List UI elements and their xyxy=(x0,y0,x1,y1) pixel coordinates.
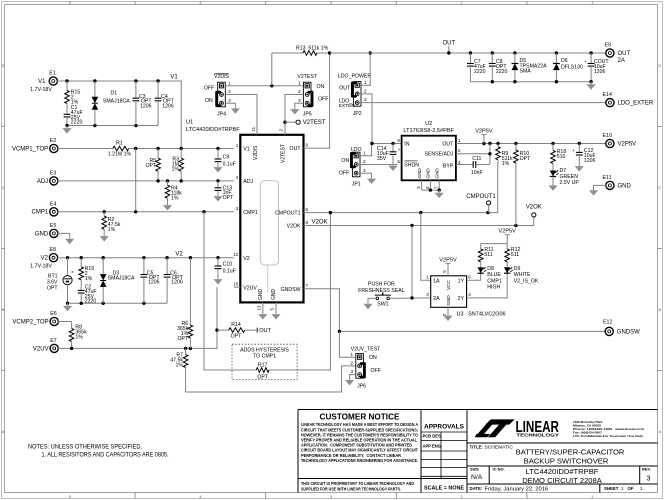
svg-text:E14: E14 xyxy=(603,92,612,98)
node V2TEST xyxy=(285,121,296,123)
svg-text:V2OK: V2OK xyxy=(312,219,328,225)
svg-text:1%: 1% xyxy=(502,161,510,167)
svg-text:1%: 1% xyxy=(108,227,116,233)
svg-text:2220: 2220 xyxy=(71,120,83,126)
svg-text:JP5: JP5 xyxy=(303,112,312,118)
svg-text:OUT: OUT xyxy=(290,146,302,152)
turret E4 xyxy=(50,208,58,216)
JP1 pin2 wire to SHDN xyxy=(360,164,398,166)
U2 OUT wire to E10 xyxy=(456,143,606,145)
svg-text:13: 13 xyxy=(257,305,262,311)
LED D9 WHITE xyxy=(504,267,510,273)
wire E2 node down to CMP1 xyxy=(135,149,137,212)
svg-text:OF: OF xyxy=(628,486,634,491)
svg-text:1206: 1206 xyxy=(148,280,160,286)
op-amp U1 LTC4420 box xyxy=(240,135,303,303)
title rows xyxy=(467,443,658,493)
svg-text:CMPOUT1: CMPOUT1 xyxy=(466,194,496,200)
U1 pin 10 wire xyxy=(234,286,241,288)
svg-text:2A: 2A xyxy=(433,296,440,302)
svg-text:0.1uF: 0.1uF xyxy=(223,268,236,274)
svg-text:OPT: OPT xyxy=(223,195,234,201)
svg-text:1.21M 1%: 1.21M 1% xyxy=(108,152,132,158)
svg-text:ON: ON xyxy=(341,158,349,164)
power flag V2P5V at U2 xyxy=(483,135,485,144)
svg-text:E7: E7 xyxy=(50,338,57,344)
resistor R12 xyxy=(506,244,508,249)
svg-text:APPROVALS: APPROVALS xyxy=(424,423,464,430)
svg-text:NOTES: UNLESS OTHERWISE SPECIF: NOTES: UNLESS OTHERWISE SPECIFIED, xyxy=(28,444,142,451)
svg-text:REV.: REV. xyxy=(642,467,651,472)
diode D1 SMAJ18CA xyxy=(94,81,96,97)
svg-text:V2: V2 xyxy=(243,256,249,262)
svg-text:2.5V UP: 2.5V UP xyxy=(560,180,580,186)
svg-text:OPT: OPT xyxy=(47,285,58,291)
svg-text:N/A: N/A xyxy=(471,474,483,481)
JP5 pin2 wire to V2TEST node xyxy=(285,95,303,135)
ground below COUT xyxy=(590,82,592,85)
resistor R9 xyxy=(497,144,499,147)
capacitor C14 xyxy=(392,144,394,152)
wire V1 rail xyxy=(57,81,181,149)
capacitor C9 xyxy=(217,149,219,160)
svg-text:JP6: JP6 xyxy=(357,383,366,389)
JP4 pin2 wire to U1 pin11 xyxy=(225,95,257,135)
capacitor C6 xyxy=(166,258,168,275)
svg-text:OUT: OUT xyxy=(259,328,271,334)
svg-text:CMP1: CMP1 xyxy=(32,210,49,216)
svg-text:SIZE: SIZE xyxy=(470,467,479,472)
svg-text:TECHNOLOGY APPLICATIONS ENGINE: TECHNOLOGY APPLICATIONS ENGINEERING FOR … xyxy=(301,458,418,463)
svg-text:Friday, January 22, 2016: Friday, January 22, 2016 xyxy=(485,486,549,492)
svg-text:V2UV_TEST: V2UV_TEST xyxy=(351,346,382,352)
svg-text:DFLS130: DFLS130 xyxy=(561,64,583,70)
turret E2 xyxy=(50,144,58,152)
battery BT1 xyxy=(67,258,69,276)
svg-text:IC NO.: IC NO. xyxy=(493,467,505,472)
svg-text:GND: GND xyxy=(434,168,439,179)
svg-text:1: 1 xyxy=(621,486,624,491)
capacitor C1 xyxy=(66,113,68,114)
svg-text:SMAJ18CA: SMAJ18CA xyxy=(108,275,135,281)
U3 GND pin xyxy=(447,307,449,313)
svg-text:DEMO CIRCUIT 2208A: DEMO CIRCUIT 2208A xyxy=(522,476,603,485)
jumper JP1 LDO xyxy=(352,152,360,177)
svg-text:OFF: OFF xyxy=(318,97,328,103)
svg-text:10: 10 xyxy=(233,282,239,287)
svg-text:E10: E10 xyxy=(603,133,612,139)
svg-text:GND: GND xyxy=(417,168,422,179)
wire OUT rail xyxy=(330,52,606,54)
ground at E11 xyxy=(593,188,595,191)
wire SW1 left to ground xyxy=(368,298,376,301)
node V2OK xyxy=(532,213,536,217)
svg-text:V2P5V: V2P5V xyxy=(475,129,493,135)
jumper JP4 V2DIS xyxy=(218,82,226,107)
svg-text:1206: 1206 xyxy=(594,69,606,75)
ground U1 pin13 xyxy=(262,312,264,315)
capacitor C12 xyxy=(578,144,580,153)
turret E7 xyxy=(50,344,58,352)
svg-text:SUPPLIED FOR USE WITH LINEAR T: SUPPLIED FOR USE WITH LINEAR TECHNOLOGY … xyxy=(301,486,401,491)
svg-text:TITLE:: TITLE: xyxy=(470,444,484,449)
JP6 pin1 wire to GNDSW xyxy=(339,331,355,357)
svg-text:V2_IS_OK: V2_IS_OK xyxy=(514,278,539,284)
svg-text:4: 4 xyxy=(199,495,201,499)
svg-text:ADJ: ADJ xyxy=(243,179,253,185)
svg-text:1: 1 xyxy=(591,1,593,5)
svg-text:E4: E4 xyxy=(50,201,57,207)
svg-text:OFF: OFF xyxy=(339,170,349,176)
U2 SENSE wire xyxy=(456,153,490,155)
svg-text:2: 2 xyxy=(461,1,463,5)
svg-text:V2P5V: V2P5V xyxy=(618,142,637,148)
resistor R11 xyxy=(480,244,482,249)
svg-text:IN: IN xyxy=(404,141,409,147)
capacitor C8 xyxy=(491,53,493,64)
svg-text:+: + xyxy=(572,149,575,154)
title block frame xyxy=(298,410,658,493)
jumper JP2 LDO_POWER xyxy=(353,82,361,107)
U3 VCC flag V2P5V xyxy=(447,267,449,276)
ground below C14 xyxy=(392,163,394,166)
svg-text:CMP1: CMP1 xyxy=(243,210,258,216)
turret E11 xyxy=(606,181,614,189)
wire SW1 to 2A xyxy=(390,297,431,300)
svg-text:VCMP1_TOP: VCMP1_TOP xyxy=(12,146,48,152)
resistor R6 xyxy=(189,258,191,325)
ground JP5 xyxy=(294,107,296,110)
svg-text:ADJ: ADJ xyxy=(37,179,48,185)
resistor R7 xyxy=(185,348,187,354)
svg-text:CUSTOMER NOTICE: CUSTOMER NOTICE xyxy=(320,412,400,421)
ground below R2 xyxy=(103,234,105,237)
resistor R15 xyxy=(66,81,68,91)
capacitor C2 xyxy=(80,289,82,291)
resistor R1 xyxy=(57,148,106,150)
wire E11 to ground xyxy=(594,185,607,187)
svg-text:ON: ON xyxy=(317,84,325,90)
ground at E5 xyxy=(69,236,71,239)
svg-text:D: D xyxy=(2,64,5,68)
svg-text:E6: E6 xyxy=(50,311,57,317)
svg-text:B: B xyxy=(659,308,662,312)
svg-text:BATTERY/SUPER-CAPACITOR: BATTERY/SUPER-CAPACITOR xyxy=(516,447,625,456)
svg-text:510: 510 xyxy=(557,154,566,160)
svg-text:OPT: OPT xyxy=(231,333,242,339)
resistor R10 xyxy=(515,144,517,151)
capacitor C5 xyxy=(143,258,145,275)
svg-text:BLUE: BLUE xyxy=(487,272,501,278)
svg-text:OFF: OFF xyxy=(204,86,214,92)
ground below BT1 xyxy=(67,303,69,306)
svg-text:C10: C10 xyxy=(223,262,233,268)
svg-text:C11: C11 xyxy=(472,156,481,162)
svg-text:GND: GND xyxy=(618,183,632,189)
svg-text:511: 511 xyxy=(484,252,492,258)
turret E8 xyxy=(49,254,57,262)
svg-text:OUT: OUT xyxy=(339,86,351,92)
turret E10 xyxy=(606,139,614,147)
svg-text:GND: GND xyxy=(35,231,49,237)
resistor R8 xyxy=(58,321,72,323)
diode D6 DFLS130 xyxy=(555,53,557,64)
svg-text:A: A xyxy=(2,430,5,434)
turret E3 xyxy=(50,177,58,185)
svg-text:OPT: OPT xyxy=(146,163,157,169)
svg-text:OFF: OFF xyxy=(371,368,381,374)
wire LDO IN line xyxy=(372,143,402,145)
svg-text:LTC4420IDD#TRPBF: LTC4420IDD#TRPBF xyxy=(526,467,599,476)
svg-text:E5: E5 xyxy=(50,223,57,229)
svg-text:ON: ON xyxy=(205,98,213,104)
capacitor C3 xyxy=(135,81,137,98)
JP5 pin3 wire to ground xyxy=(295,103,304,106)
capacitor C4 xyxy=(157,81,159,98)
svg-text:BYP: BYP xyxy=(443,164,454,170)
svg-text:5: 5 xyxy=(69,495,71,499)
svg-text:U3 SN74LVC2G06: U3 SN74LVC2G06 xyxy=(457,312,506,318)
svg-text:1%: 1% xyxy=(85,276,93,282)
svg-text:4: 4 xyxy=(199,1,201,5)
svg-text:CMPOUT1: CMPOUT1 xyxy=(275,211,300,217)
wire V2OK to U3 2A xyxy=(411,226,413,298)
wire ADJ row xyxy=(57,180,233,182)
svg-text:WHITE: WHITE xyxy=(514,272,531,278)
svg-text:1%: 1% xyxy=(171,196,179,202)
svg-text:GND: GND xyxy=(446,295,451,306)
resistor R13 xyxy=(271,53,273,86)
JP2 pin3 wire to E14 xyxy=(361,102,606,104)
svg-text:APP ENG.: APP ENG. xyxy=(423,444,443,449)
svg-text:+: + xyxy=(584,60,587,65)
svg-text:V2P5V: V2P5V xyxy=(439,257,457,263)
svg-text:C: C xyxy=(2,186,5,190)
svg-text:LDO: LDO xyxy=(351,147,362,153)
svg-text:SENSE/ADJ: SENSE/ADJ xyxy=(424,152,453,158)
JP1 pin1 wire to IN xyxy=(360,144,372,156)
wire R11 R12 top rail xyxy=(481,243,508,245)
svg-text:V2OK: V2OK xyxy=(526,205,542,211)
svg-text:SCALE = NONE: SCALE = NONE xyxy=(424,485,464,491)
svg-text:GND: GND xyxy=(271,289,277,301)
svg-text:V2UV: V2UV xyxy=(243,285,257,291)
svg-text:1Y: 1Y xyxy=(458,278,465,284)
svg-text:SCHEMATIC: SCHEMATIC xyxy=(485,444,514,450)
svg-text:V2TEST: V2TEST xyxy=(297,74,317,80)
svg-text:1%: 1% xyxy=(172,167,180,173)
diode D5 TPSMA22A xyxy=(514,53,516,64)
turret E6 xyxy=(50,317,58,325)
svg-text:LTC Confidential-For Customer: LTC Confidential-For Customer Use Only xyxy=(573,434,643,438)
svg-text:1: 1 xyxy=(640,486,643,491)
svg-text:GND: GND xyxy=(426,168,431,179)
svg-text:3: 3 xyxy=(330,495,332,499)
svg-text:OPT: OPT xyxy=(520,156,531,162)
ground at SW1 xyxy=(367,301,369,304)
svg-text:C9: C9 xyxy=(223,155,230,161)
svg-text:V2DIS: V2DIS xyxy=(253,145,259,160)
svg-text:SHDN: SHDN xyxy=(404,162,419,168)
svg-text:V2DIS: V2DIS xyxy=(214,74,230,80)
svg-text:TO CMP1: TO CMP1 xyxy=(253,354,276,360)
ground U1 pin5 xyxy=(275,312,277,315)
svg-text:E1: E1 xyxy=(49,71,56,77)
svg-text:2: 2 xyxy=(461,495,463,499)
ground below C10 xyxy=(217,277,219,280)
svg-text:E11: E11 xyxy=(603,175,612,181)
svg-text:12: 12 xyxy=(233,252,239,257)
svg-text:35V: 35V xyxy=(377,156,387,162)
svg-text:V2TEST: V2TEST xyxy=(303,120,326,126)
svg-text:5: 5 xyxy=(69,1,71,5)
wire V2UV row xyxy=(58,287,217,348)
diode D3 SMAJ18CA xyxy=(102,258,104,274)
JP4 pin3 wire to ground xyxy=(225,103,235,106)
svg-text:FRESHNESS SEAL: FRESHNESS SEAL xyxy=(358,288,405,294)
node CMPOUT1 xyxy=(487,201,491,205)
svg-text:GNDSW: GNDSW xyxy=(617,329,640,335)
svg-text:TECHNOLOGY: TECHNOLOGY xyxy=(516,433,559,439)
svg-text:511: 511 xyxy=(511,252,519,258)
svg-text:3: 3 xyxy=(646,473,650,482)
wire R1 to U1 pin1 xyxy=(136,148,234,150)
junction dots V1 rail xyxy=(65,79,68,82)
svg-text:C: C xyxy=(658,186,661,190)
svg-text:R1: R1 xyxy=(116,140,123,146)
svg-text:SMA: SMA xyxy=(520,69,532,75)
U1 CMPOUT1 wire xyxy=(304,163,498,213)
svg-text:E3: E3 xyxy=(50,170,57,176)
JP1 pin3 wire to ground xyxy=(360,173,372,176)
capacitor COUT xyxy=(590,53,592,64)
svg-text:V2UV: V2UV xyxy=(33,346,49,352)
LED D8 BLUE xyxy=(478,267,484,273)
svg-text:V1: V1 xyxy=(38,79,46,85)
turret E1 xyxy=(49,77,57,85)
wire U3 2Y to D9 xyxy=(467,273,508,298)
svg-text:R17: R17 xyxy=(258,363,268,369)
svg-text:11: 11 xyxy=(251,126,256,131)
svg-text:E2: E2 xyxy=(50,138,57,144)
capacitor C13 xyxy=(217,181,219,188)
jumper JP5 V2TEST xyxy=(303,82,311,107)
wire CMPOUT1 to U3 1A xyxy=(421,213,431,281)
net tag OUT at R14 xyxy=(256,328,258,333)
svg-text:SW1: SW1 xyxy=(377,302,388,308)
svg-text:1206: 1206 xyxy=(162,103,174,109)
svg-text:1.7V-18V: 1.7V-18V xyxy=(30,87,52,93)
capacitor C11 xyxy=(456,164,471,166)
LED D7 GREEN xyxy=(552,169,554,171)
svg-text:V2TEST: V2TEST xyxy=(281,144,287,163)
svg-text:E8: E8 xyxy=(50,247,57,253)
svg-text:U2: U2 xyxy=(425,121,432,127)
ground below C9 xyxy=(217,165,219,168)
svg-text:E9: E9 xyxy=(605,43,612,49)
svg-text:LDO_POWER: LDO_POWER xyxy=(338,74,371,80)
svg-text:1206: 1206 xyxy=(584,158,596,164)
wire R7 bottom to JP6 pin2 xyxy=(186,366,356,392)
ground JP4 xyxy=(234,106,236,109)
svg-text:10nF: 10nF xyxy=(471,170,483,176)
svg-text:3: 3 xyxy=(330,1,332,5)
svg-text:1: 1 xyxy=(591,495,593,499)
capacitor C10 xyxy=(217,258,219,266)
power flag V2P5V at R11 R12 xyxy=(506,235,508,244)
svg-text:SMAJ18CA: SMAJ18CA xyxy=(103,99,130,105)
svg-text:GND: GND xyxy=(258,289,264,301)
wire bottom rail V2 group xyxy=(68,302,168,304)
wire CMP1 to R17 xyxy=(204,212,256,370)
ground below D7 xyxy=(552,183,554,186)
Linear Technology logo xyxy=(475,419,515,437)
svg-text:1%: 1% xyxy=(176,363,184,369)
svg-text:D8: D8 xyxy=(487,266,494,272)
svg-text:V2: V2 xyxy=(41,256,49,262)
svg-text:1.7V-18V: 1.7V-18V xyxy=(30,264,52,270)
hysteresis dashed box xyxy=(232,344,297,379)
resistor R18 xyxy=(552,144,554,151)
jumper JP6 V2UV_TEST xyxy=(356,354,364,379)
svg-text:1206: 1206 xyxy=(140,103,152,109)
svg-text:2220: 2220 xyxy=(474,69,486,75)
svg-text:D1: D1 xyxy=(111,91,118,97)
capacitor C7 xyxy=(469,53,471,64)
svg-text:OPT: OPT xyxy=(178,336,189,342)
svg-text:R13 511k 1%: R13 511k 1% xyxy=(296,46,329,52)
svg-text:PUSH FOR: PUSH FOR xyxy=(368,282,395,288)
svg-text:E12: E12 xyxy=(603,319,612,325)
ground below R4 xyxy=(167,203,169,206)
svg-text:B: B xyxy=(2,308,5,312)
svg-text:VCMP2_TOP: VCMP2_TOP xyxy=(12,319,48,325)
U1 V2OK wire xyxy=(304,217,534,226)
resistor R4 xyxy=(167,181,169,185)
wire V2 rail xyxy=(57,257,234,259)
ground below C1 xyxy=(66,126,68,129)
wire CMP1 row xyxy=(57,211,233,213)
resistor R3 xyxy=(180,149,182,159)
turret E12 xyxy=(605,327,613,335)
turret E5 xyxy=(50,229,58,237)
svg-text:ON: ON xyxy=(369,355,377,361)
ground below C12 xyxy=(578,164,580,167)
wire bottom rail V1 group xyxy=(67,125,158,127)
svg-text:THIS CIRCUIT IS PROPRIETARY TO: THIS CIRCUIT IS PROPRIETARY TO LINEAR TE… xyxy=(301,481,414,486)
wire E5 to ground xyxy=(57,233,69,236)
turret E9 xyxy=(606,49,614,57)
svg-text:1A: 1A xyxy=(433,278,440,284)
svg-text:D6: D6 xyxy=(561,58,568,64)
svg-text:V2P5V: V2P5V xyxy=(498,229,516,235)
svg-text:VCC: VCC xyxy=(446,280,451,290)
svg-text:U1: U1 xyxy=(186,120,193,126)
svg-text:DATE:: DATE: xyxy=(470,486,483,491)
U1 GNDSW wire to E12 xyxy=(304,289,606,332)
svg-text:V1: V1 xyxy=(243,147,249,153)
svg-text:OUT: OUT xyxy=(442,41,455,47)
JP6 pin3 wire to ground xyxy=(350,375,356,378)
svg-text:JP2: JP2 xyxy=(353,111,362,117)
svg-text:SHEET: SHEET xyxy=(604,486,619,491)
svg-text:2Y: 2Y xyxy=(458,296,465,302)
svg-text:1%: 1% xyxy=(75,335,83,341)
resistor R14 xyxy=(215,328,218,331)
svg-text:2220: 2220 xyxy=(85,299,97,305)
svg-text:2220: 2220 xyxy=(496,69,508,75)
svg-text:JP1: JP1 xyxy=(352,182,361,188)
